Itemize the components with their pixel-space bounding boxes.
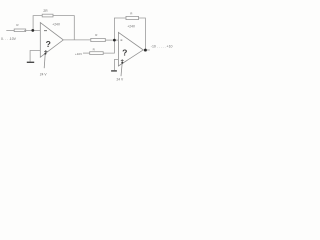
svg-text:2R: 2R bbox=[43, 9, 48, 13]
svg-text:-10 . . . . . +10: -10 . . . . . +10 bbox=[151, 45, 173, 49]
svg-text:24 V: 24 V bbox=[117, 77, 125, 81]
svg-text:+24V: +24V bbox=[127, 24, 136, 28]
svg-text:?: ? bbox=[46, 39, 51, 49]
svg-text:0. . . .10V: 0. . . .10V bbox=[1, 37, 17, 41]
svg-text:+24V: +24V bbox=[52, 22, 61, 26]
svg-text:+10V: +10V bbox=[75, 52, 82, 56]
svg-text:?: ? bbox=[122, 48, 127, 58]
svg-text:24 V: 24 V bbox=[40, 73, 48, 77]
